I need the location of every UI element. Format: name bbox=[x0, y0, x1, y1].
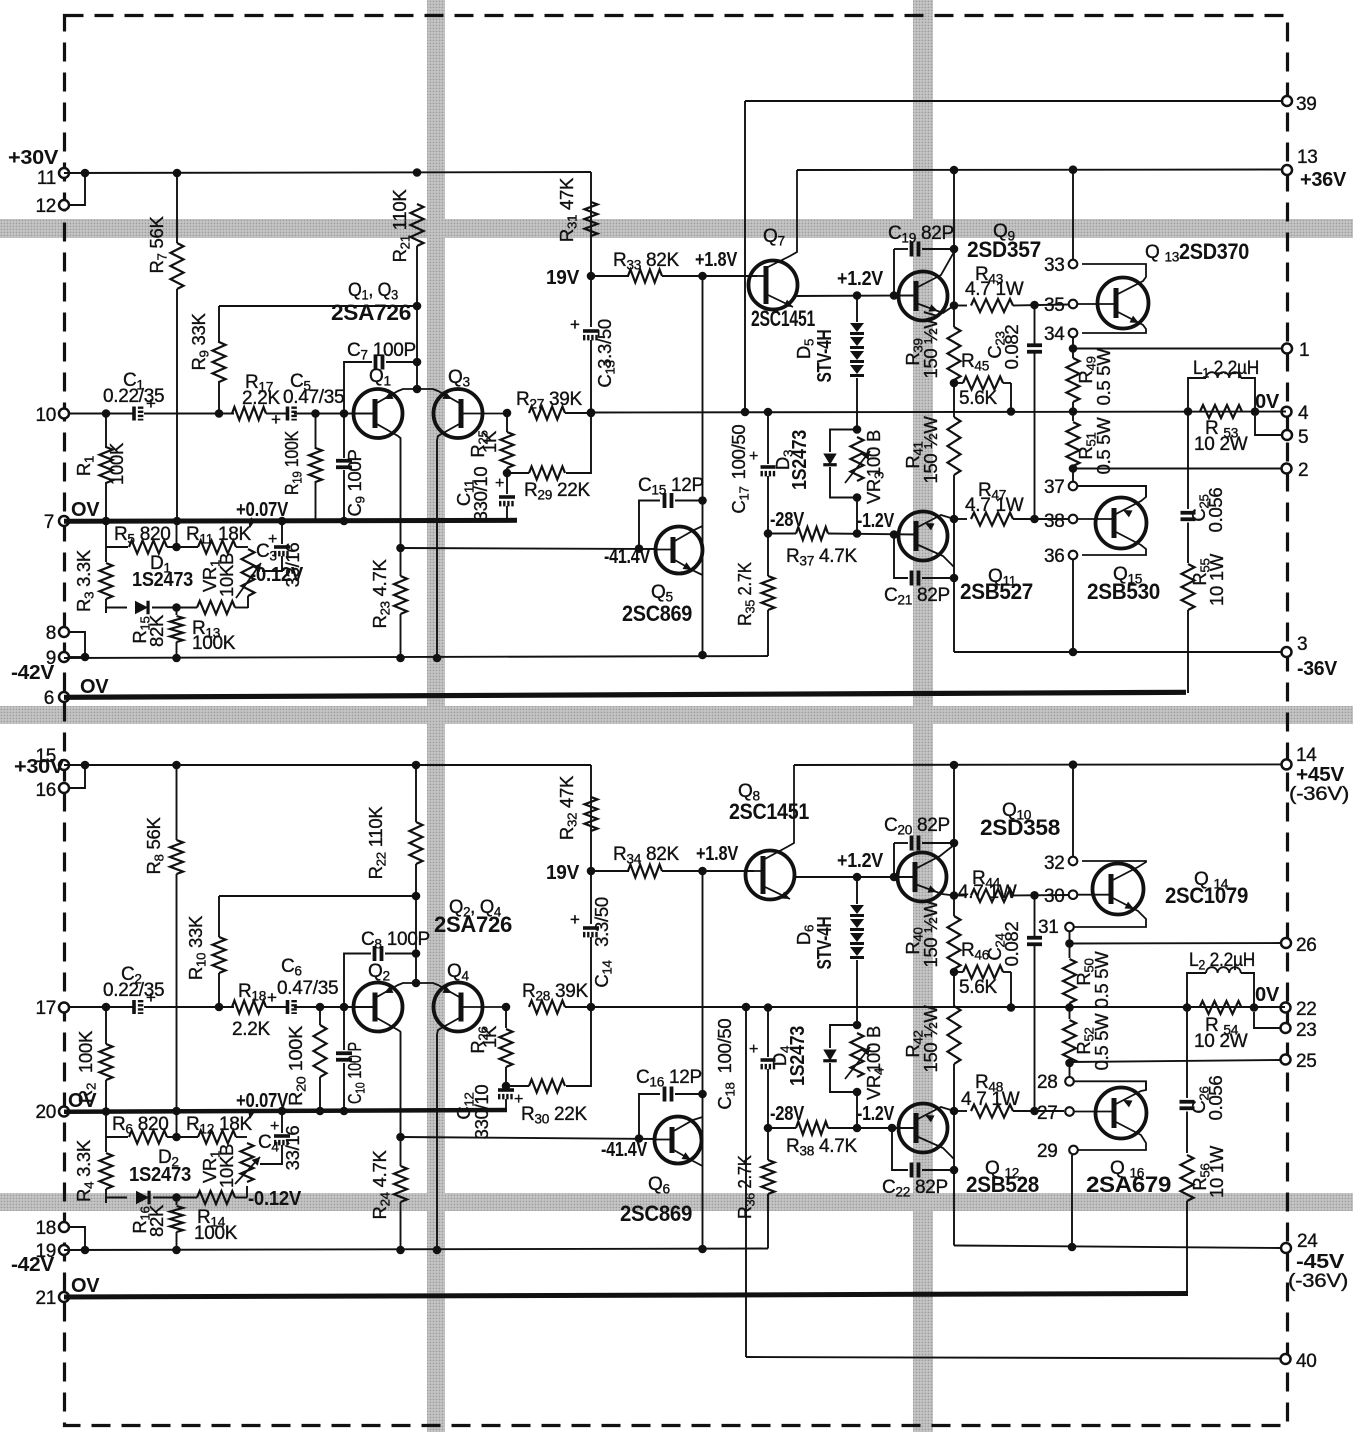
node C22 left on base wire bbox=[888, 1124, 897, 1133]
capacitor C9 100P bbox=[343, 414, 345, 459]
wire 33 column from +36V rail bbox=[1072, 170, 1074, 259]
gray band vertical 1 bbox=[427, 0, 445, 1432]
wire R52 to 28 bbox=[1069, 1063, 1071, 1077]
wire VR3 to -1.2V node bbox=[856, 498, 858, 534]
wire C23 column bbox=[1034, 305, 1036, 345]
capacitor C17 100/50 electrolytic bbox=[764, 408, 773, 417]
wire node to terminal 25 bbox=[1070, 1060, 1282, 1062]
svg-text:2SC869: 2SC869 bbox=[620, 1201, 692, 1226]
svg-text:25: 25 bbox=[1296, 1051, 1317, 1072]
svg-text:(-36V): (-36V) bbox=[1288, 1271, 1348, 1292]
node R8 bottom on 0V bbox=[172, 1107, 181, 1116]
svg-text:C9​ 100P: C9​ 100P bbox=[344, 449, 368, 516]
wire R18 to C6 bbox=[266, 1006, 287, 1008]
svg-text:23: 23 bbox=[1296, 1020, 1317, 1041]
resistor R34 82K bbox=[591, 870, 629, 872]
resistor R28 39K bbox=[529, 1001, 565, 1014]
capacitor C5 0.47/35 bbox=[286, 407, 290, 421]
resistor R51 0.5 5W bbox=[1072, 412, 1074, 422]
node R44/C24 junction bbox=[1030, 891, 1039, 900]
svg-text:1: 1 bbox=[1299, 340, 1309, 361]
node R45 left on R39/R41 column bbox=[950, 379, 959, 388]
node at 85,765 bbox=[81, 761, 90, 770]
collector column x954 bbox=[953, 170, 955, 305]
node R9-wire junction bbox=[413, 302, 422, 311]
terminal 7 0V bbox=[59, 516, 69, 526]
svg-text:2.2K: 2.2K bbox=[242, 388, 281, 409]
node C13 bottom on rail bbox=[587, 408, 596, 417]
svg-text:-0.12V: -0.12V bbox=[250, 564, 304, 586]
node 32-column on +45V rail bbox=[1069, 760, 1078, 769]
node C20 column on +45V rail bbox=[950, 761, 959, 770]
terminal circle 36 bbox=[1069, 551, 1078, 560]
node C15 left on base wire bbox=[635, 544, 644, 553]
transistor Q6 2SC869 bbox=[655, 1117, 702, 1164]
wire 34 down to node bbox=[1072, 338, 1074, 349]
+30V rail lower bbox=[64, 764, 591, 766]
svg-text:20: 20 bbox=[35, 1102, 56, 1123]
node R53 right 0V bbox=[1251, 407, 1260, 416]
wire R3 to D1 bbox=[106, 608, 127, 614]
svg-text:6: 6 bbox=[44, 688, 54, 709]
node R49 bottom on rail bbox=[1069, 407, 1078, 416]
wire terminal 18 jog bbox=[69, 1227, 85, 1250]
svg-text:+: + bbox=[267, 988, 277, 1007]
capacitor C18 100/50 electrolytic bbox=[764, 1003, 773, 1012]
svg-text:+: + bbox=[514, 1091, 523, 1108]
svg-text:R12​ 18K: R12​ 18K bbox=[186, 1114, 253, 1137]
capacitor C12 330/10 electrolytic bbox=[505, 1086, 507, 1088]
capacitor C4 33/16 electrolytic bbox=[281, 1111, 283, 1133]
node C9 bottom on 0V bbox=[340, 517, 349, 526]
resistor R39 150 1/2W bbox=[953, 306, 955, 328]
svg-text:-42V: -42V bbox=[11, 662, 55, 684]
terminal 24 -45V bbox=[1281, 1243, 1291, 1253]
svg-text:13: 13 bbox=[1297, 147, 1318, 168]
svg-text:22: 22 bbox=[1296, 999, 1317, 1020]
wire C2 to R18 bbox=[144, 1006, 234, 1008]
resistor R43 4.7 1W bbox=[954, 305, 967, 307]
svg-text:2.7K: 2.7K bbox=[734, 1155, 755, 1189]
node R5 left bbox=[106, 546, 128, 548]
wire Q5 collector column bbox=[702, 276, 704, 655]
svg-text:1S2473: 1S2473 bbox=[789, 430, 811, 490]
resistor R48 4.7 1W bbox=[954, 1110, 967, 1112]
svg-text:+1.2V: +1.2V bbox=[837, 850, 884, 872]
svg-text:100K: 100K bbox=[194, 1223, 238, 1244]
terminal 25 bbox=[1281, 1055, 1291, 1065]
resistor R11 18K bbox=[198, 541, 236, 554]
+45V rail bbox=[794, 763, 1281, 766]
svg-text:2SC1451: 2SC1451 bbox=[751, 306, 815, 331]
svg-text:+1.8V: +1.8V bbox=[695, 249, 738, 271]
resistor R8 56K bbox=[176, 765, 178, 840]
svg-text:C16​ 12P: C16​ 12P bbox=[636, 1067, 702, 1090]
base wire to Q6 bbox=[401, 1137, 657, 1139]
svg-text:R4​ 3.3K: R4​ 3.3K bbox=[73, 1139, 97, 1202]
svg-text:R5​ 820: R5​ 820 bbox=[114, 524, 171, 547]
wire R17 to C5 bbox=[266, 413, 287, 415]
svg-text:10 1W: 10 1W bbox=[1206, 1145, 1227, 1198]
svg-text:26: 26 bbox=[1296, 935, 1317, 956]
svg-text:-1.2V: -1.2V bbox=[857, 510, 895, 532]
svg-text:2SC869: 2SC869 bbox=[622, 601, 692, 626]
resistor R46 5.6K bbox=[954, 971, 963, 973]
svg-text:+: + bbox=[146, 988, 156, 1007]
svg-text:R32​ 47K: R32​ 47K bbox=[556, 775, 580, 840]
capacitor C22 82P bbox=[910, 1163, 914, 1178]
svg-text:19V: 19V bbox=[546, 267, 580, 289]
transistor Q2 2SA726 bbox=[354, 983, 403, 1032]
svg-text:1S2473: 1S2473 bbox=[129, 1164, 191, 1186]
svg-text:R10​ 33K: R10​ 33K bbox=[185, 915, 209, 980]
node R21 top bbox=[413, 168, 422, 177]
svg-text:R23​ 4.7K: R23​ 4.7K bbox=[369, 559, 393, 629]
wire R5-R11 link bbox=[167, 546, 198, 548]
wire 31 down to node bbox=[1069, 932, 1071, 944]
svg-text:100K: 100K bbox=[75, 1030, 96, 1073]
svg-text:10KB: 10KB bbox=[216, 1144, 237, 1188]
transistor Q7 2SC1451 bbox=[749, 261, 798, 310]
svg-text:4.7 1W: 4.7 1W bbox=[965, 495, 1024, 516]
node 29 on -45V wire bbox=[1068, 1243, 1077, 1252]
wire C3 bottom to wiper bbox=[262, 565, 282, 571]
node R26 bottom bbox=[502, 1082, 511, 1091]
wire 19V node column bbox=[590, 203, 592, 236]
base wire to Q5 bbox=[401, 548, 657, 549]
svg-text:+: + bbox=[570, 910, 580, 929]
svg-text:17: 17 bbox=[35, 998, 56, 1019]
svg-text:C8​ 100P: C8​ 100P bbox=[361, 929, 430, 952]
terminal circle 30 bbox=[1069, 890, 1078, 899]
svg-text:100: 100 bbox=[863, 447, 884, 477]
node C20 right on collector column bbox=[950, 839, 959, 848]
svg-text:32: 32 bbox=[1044, 853, 1065, 874]
svg-text:+1.2V: +1.2V bbox=[837, 268, 884, 290]
capacitor C15 12P bbox=[663, 493, 667, 508]
pot VR4 100B bbox=[851, 1033, 864, 1077]
svg-text:5.6K: 5.6K bbox=[959, 977, 998, 998]
node -1.2V bbox=[853, 529, 862, 538]
terminal 6 0V bbox=[59, 692, 69, 702]
resistor R7 56K bbox=[176, 173, 178, 243]
transistor Q13 2SD370 bbox=[1098, 278, 1149, 329]
wire node to terminal 26 bbox=[1070, 942, 1282, 945]
node R6 left bbox=[106, 1136, 128, 1138]
svg-text:R38​ 4.7K: R38​ 4.7K bbox=[786, 1136, 858, 1159]
terminal 12 bbox=[59, 200, 69, 210]
transistor Q16 2SA679 bbox=[1096, 1088, 1147, 1139]
wire C19 left leg down to base bbox=[893, 249, 895, 296]
svg-text:OV: OV bbox=[71, 499, 100, 521]
pot VR1 10KB lower bbox=[241, 1143, 254, 1182]
svg-text:+: + bbox=[495, 475, 504, 492]
svg-text:5.6K: 5.6K bbox=[959, 388, 998, 409]
node at 85,1250 bbox=[81, 1246, 90, 1255]
svg-text:R6​ 820: R6​ 820 bbox=[112, 1114, 169, 1137]
-42V rail lower bbox=[64, 1249, 768, 1251]
svg-text:+1.8V: +1.8V bbox=[696, 843, 739, 865]
node R7 top bbox=[173, 169, 182, 178]
collector column x954 lower bbox=[953, 765, 955, 895]
wire C16 left leg bbox=[639, 1094, 660, 1139]
svg-text:33: 33 bbox=[1044, 255, 1065, 276]
svg-text:14: 14 bbox=[1296, 745, 1317, 766]
main rail wire lower (output line) bbox=[591, 1006, 1285, 1008]
node collector column on -42V rail lower bbox=[698, 1245, 707, 1254]
wire R4 to D2 bbox=[106, 1198, 127, 1204]
-42V rail bbox=[64, 656, 768, 658]
resistor R23 4.7K bbox=[400, 548, 402, 576]
svg-text:-41.4V: -41.4V bbox=[604, 546, 651, 568]
svg-text:R21​ 110K: R21​ 110K bbox=[389, 189, 413, 263]
node R6/R12 junction bbox=[172, 1133, 181, 1142]
resistor R4 3.3K bbox=[105, 1137, 107, 1152]
svg-text:R19​ 100K: R19​ 100K bbox=[281, 430, 305, 495]
svg-text:C21​ 82P: C21​ 82P bbox=[884, 585, 950, 608]
node C21 left on base wire bbox=[890, 530, 899, 539]
node 19V lower bbox=[587, 867, 596, 876]
svg-text:R34​ 82K: R34​ 82K bbox=[613, 844, 680, 867]
node R51 bottom bbox=[1069, 464, 1078, 473]
wire 32 column from +45V rail bbox=[1072, 765, 1074, 856]
node R16 bottom on -42V rail lower bbox=[172, 1246, 181, 1255]
terminal 2 bbox=[1282, 464, 1292, 474]
svg-text:10: 10 bbox=[35, 405, 56, 426]
svg-text:C22​ 82P: C22​ 82P bbox=[882, 1177, 948, 1200]
resistor R35 2.7K bbox=[767, 534, 769, 577]
terminal 16 bbox=[59, 783, 69, 793]
terminal 17 input lower bbox=[59, 1003, 69, 1013]
terminal 21 0V bbox=[59, 1292, 69, 1302]
transistor Q14 2SC1079 bbox=[1093, 864, 1144, 915]
wire C16 right leg bbox=[675, 1093, 703, 1095]
svg-text:0.47/35: 0.47/35 bbox=[283, 387, 344, 408]
svg-text:4 7 1W: 4 7 1W bbox=[961, 1089, 1020, 1110]
svg-text:R11​ 18K: R11​ 18K bbox=[186, 524, 252, 547]
capacitor C10 100P bbox=[343, 1007, 345, 1050]
node R19 top bbox=[311, 409, 320, 418]
svg-text:27: 27 bbox=[1037, 1103, 1058, 1124]
svg-text:37: 37 bbox=[1044, 477, 1065, 498]
svg-text:5: 5 bbox=[1298, 427, 1308, 448]
svg-text:0.056: 0.056 bbox=[1205, 488, 1226, 533]
svg-text:2SD357: 2SD357 bbox=[967, 237, 1041, 262]
node R2 top bbox=[102, 1003, 111, 1012]
node R48/C24 junction bbox=[1030, 1107, 1039, 1116]
svg-text:40: 40 bbox=[1296, 1351, 1317, 1372]
svg-text:R24​ 4.7K: R24​ 4.7K bbox=[369, 1150, 393, 1220]
wire C24 column bbox=[1034, 895, 1036, 937]
wire C8 right leg bbox=[385, 953, 416, 955]
wire R27 right to rail node bbox=[565, 412, 591, 414]
resistor R13 100K bbox=[197, 601, 235, 614]
wire Q8 base bbox=[703, 870, 755, 872]
svg-text:-36V: -36V bbox=[1297, 658, 1338, 680]
svg-text:-45V: -45V bbox=[1296, 1251, 1345, 1273]
svg-text:+0.07V: +0.07V bbox=[236, 499, 289, 521]
svg-text:2SA679: 2SA679 bbox=[1086, 1172, 1171, 1197]
svg-text:7: 7 bbox=[44, 512, 54, 533]
wire terminal 18-19 rail start bbox=[69, 1249, 85, 1251]
node C19 column on +36V rail bbox=[950, 166, 959, 175]
svg-text:B: B bbox=[863, 430, 884, 442]
resistor R2 100K bbox=[105, 1007, 107, 1044]
wire R29 riser bbox=[566, 413, 591, 473]
svg-text:31: 31 bbox=[1038, 917, 1059, 938]
svg-text:0.056: 0.056 bbox=[1205, 1076, 1226, 1121]
svg-text:R33​ 82K: R33​ 82K bbox=[613, 250, 680, 273]
0V bus line channel-2 bbox=[64, 1110, 507, 1112]
terminal 39 bbox=[1282, 96, 1292, 106]
svg-text:+30V: +30V bbox=[8, 147, 59, 169]
svg-text:+30V: +30V bbox=[14, 756, 65, 778]
svg-text:38: 38 bbox=[1044, 511, 1065, 532]
terminal 14 +45V bbox=[1282, 759, 1292, 769]
svg-text:-1.2V: -1.2V bbox=[857, 1103, 895, 1125]
node rail/R27/R29 bbox=[587, 409, 596, 418]
svg-text:C10​ 100 P: C10​ 100 P bbox=[344, 1042, 368, 1104]
wire VR1b bottom to R14 bbox=[246, 1186, 248, 1198]
node R2 bottom on 0V bbox=[102, 1107, 111, 1116]
node collector column on -42V rail bbox=[698, 651, 707, 660]
terminal 1 bbox=[1282, 344, 1292, 354]
svg-text:STV-4H: STV-4H bbox=[814, 917, 836, 970]
resistor R36 2.7K bbox=[767, 1128, 769, 1160]
wire C8 left leg bbox=[344, 954, 371, 1008]
wire R29 left bbox=[507, 472, 529, 474]
capacitor C6 0.47/35 bbox=[286, 1000, 290, 1014]
svg-text:0.5 5W: 0.5 5W bbox=[1093, 348, 1114, 406]
svg-text:2SD358: 2SD358 bbox=[980, 815, 1060, 840]
svg-text:R31​ 47K: R31​ 47K bbox=[556, 177, 580, 242]
node 31/R50/terminal26 bbox=[1065, 939, 1074, 948]
node C16 right bbox=[698, 1090, 707, 1099]
node Q9 emitter junction bbox=[950, 301, 959, 310]
svg-text:82K: 82K bbox=[146, 614, 167, 647]
svg-text:39: 39 bbox=[1296, 94, 1317, 115]
svg-text:33/16: 33/16 bbox=[282, 1126, 303, 1171]
node at 85,657 bbox=[81, 653, 90, 662]
node Q4 collector on -42V rail bbox=[433, 1246, 442, 1255]
svg-text:0.082: 0.082 bbox=[1001, 325, 1022, 370]
svg-text:+: + bbox=[270, 1118, 279, 1135]
node R1 bottom on 0V bbox=[102, 517, 111, 526]
resistor R9 33K bbox=[218, 306, 220, 343]
gray band vertical 2 bbox=[913, 0, 933, 1432]
+30V rail top bbox=[64, 172, 591, 173]
svg-text:+: + bbox=[271, 410, 281, 429]
resistor R54 10 2W bbox=[1200, 1001, 1242, 1014]
capacitor C21 82P bbox=[910, 571, 914, 586]
capacitor C1 0.22/35 bbox=[132, 407, 136, 421]
node C17 bottom -28V bbox=[764, 529, 773, 538]
wire C21 bottom side bbox=[894, 535, 908, 579]
node C8 right bbox=[412, 949, 421, 958]
resistor R18 2.2K bbox=[232, 1001, 266, 1014]
resistor R40 150 1/2W bbox=[953, 896, 955, 917]
svg-text:29: 29 bbox=[1037, 1141, 1058, 1162]
svg-text:10KB: 10KB bbox=[216, 553, 237, 597]
node R15 bottom on -42V rail bbox=[172, 654, 181, 663]
wire terminal 12 jog bbox=[69, 173, 85, 205]
node R43/C23 junction bbox=[1030, 301, 1039, 310]
svg-text:+: + bbox=[749, 1041, 758, 1058]
node R20 bottom on 0V bbox=[316, 1107, 325, 1116]
svg-text:R7​ 56K: R7​ 56K bbox=[146, 216, 170, 274]
resistor R19 100K bbox=[315, 414, 317, 450]
node C5/R9 junction bbox=[215, 409, 224, 418]
node R42 bottom / R48 / Q12 emitter bbox=[950, 1107, 959, 1116]
node C22 right on down column bbox=[950, 1166, 959, 1175]
svg-text:-42V: -42V bbox=[11, 1254, 55, 1276]
node L1 left on rail bbox=[1184, 407, 1193, 416]
terminal circle 31 bbox=[1065, 923, 1074, 932]
wire C15 left leg bbox=[639, 501, 660, 549]
gray band horizontal 3 bbox=[0, 1193, 1353, 1211]
svg-text:-0.12V: -0.12V bbox=[248, 1188, 302, 1210]
terminal circle 38 bbox=[1069, 515, 1078, 524]
terminal circle 29 bbox=[1069, 1146, 1078, 1155]
svg-text:(-36V): (-36V) bbox=[1289, 784, 1349, 805]
svg-text:R27​ 39K: R27​ 39K bbox=[516, 389, 583, 412]
wire C7 left leg bbox=[344, 362, 372, 414]
node D3/VR3 bottom bbox=[853, 493, 862, 502]
node emitters lower bbox=[412, 979, 421, 988]
gray band horizontal 1 bbox=[0, 219, 1353, 238]
transistor Q4 2SA726 (mirrored) bbox=[434, 983, 483, 1032]
node R22 top bbox=[412, 761, 421, 770]
node 19V bbox=[587, 272, 596, 281]
node R46 on rail bbox=[1007, 1003, 1016, 1012]
wire R32 drop bbox=[590, 765, 592, 797]
svg-text:30: 30 bbox=[1044, 886, 1065, 907]
svg-text:10 2W: 10 2W bbox=[1194, 434, 1248, 455]
wire Q6 collector column bbox=[702, 871, 704, 1249]
svg-text:150 ½W: 150 ½W bbox=[920, 416, 941, 484]
terminal 23 bbox=[1281, 1023, 1291, 1033]
node C7 right bbox=[413, 358, 422, 367]
diode D3 1S2473 branch bbox=[830, 430, 857, 453]
wire R10 top link bbox=[219, 895, 416, 897]
wire R2-R6 link bbox=[105, 1112, 107, 1138]
wire C22 bottom side bbox=[892, 1128, 908, 1170]
svg-text:OV: OV bbox=[71, 1275, 100, 1297]
svg-text:34: 34 bbox=[1044, 324, 1065, 345]
svg-text:8: 8 bbox=[46, 623, 56, 644]
svg-text:2SB527: 2SB527 bbox=[960, 579, 1033, 604]
capacitor C16 12P bbox=[663, 1087, 667, 1102]
node R10-wire junction bbox=[412, 892, 421, 901]
terminal circle 37 bbox=[1069, 482, 1078, 491]
wire C7 right leg bbox=[386, 361, 417, 363]
feedback wire to terminal 39 bbox=[744, 101, 746, 412]
terminal 26 bbox=[1281, 938, 1291, 948]
svg-text:82K: 82K bbox=[146, 1204, 167, 1237]
resistor R56 10 1W bbox=[1181, 1155, 1194, 1201]
transistor Q11 2SB527 bbox=[899, 512, 948, 561]
wire R11 to VR1 bbox=[236, 546, 248, 548]
svg-text:+: + bbox=[268, 531, 277, 548]
wire R31 to 19V node bbox=[590, 236, 592, 276]
node R23 bottom on -42V rail bbox=[396, 654, 405, 663]
resistor R49 0.5 5W bbox=[1072, 349, 1074, 359]
terminal 8 bbox=[59, 627, 69, 637]
resistor R27 39K bbox=[529, 407, 565, 420]
svg-text:C15​ 12P: C15​ 12P bbox=[638, 475, 704, 498]
capacitor C26 0.056 bbox=[1186, 1008, 1188, 1099]
node feedback column on rail lower bbox=[742, 1003, 751, 1012]
